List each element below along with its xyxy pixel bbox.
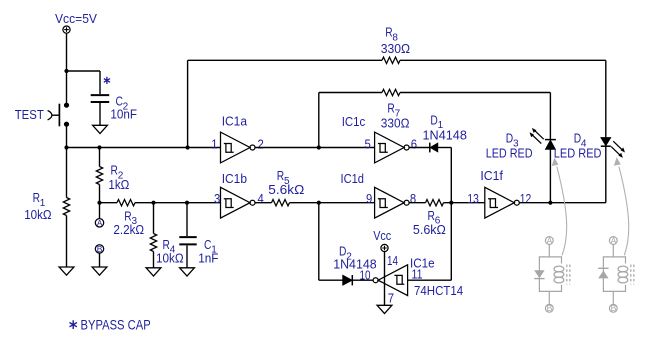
svg-text:14: 14 [387, 254, 398, 268]
wire IC1d output to R6 [409, 202, 426, 204]
power Vcc=5V symbol [63, 26, 70, 33]
diode D2 1N4148 [343, 275, 353, 285]
wire IC1f output to D4 corner [519, 202, 606, 204]
ground under B [92, 267, 107, 275]
power Vcc symbol at IC1e [381, 244, 388, 251]
svg-text:BYPASS CAP: BYPASS CAP [81, 317, 151, 332]
svg-text:5.6kΩ: 5.6kΩ [413, 222, 446, 237]
svg-text:10kΩ: 10kΩ [24, 207, 52, 222]
gray unit right: coil [618, 266, 628, 272]
svg-text:Vcc=5V: Vcc=5V [55, 11, 97, 26]
wire R8 loop right vertical to D4 [605, 60, 607, 137]
gray unit right: terminal B [609, 303, 617, 313]
svg-text:13: 13 [467, 192, 479, 206]
wire R7 loop top left [319, 92, 382, 94]
wire IC1b output to R5 [255, 202, 272, 204]
resistor R8 [382, 57, 400, 63]
capacitor C1 [186, 203, 188, 236]
schmitt inverter IC1a [221, 132, 256, 163]
node B terminal [95, 245, 103, 253]
svg-text:9: 9 [366, 192, 372, 206]
svg-text:IC1a: IC1a [222, 114, 248, 129]
wire D1 to feedback vertical [438, 147, 452, 149]
svg-text:IC1c: IC1c [342, 114, 366, 129]
svg-text:LED RED: LED RED [554, 145, 602, 160]
resistor R6 [426, 200, 444, 206]
gray unit right: box outline [603, 257, 625, 292]
gray arrow left [557, 167, 567, 256]
wire R7 loop right vertical to D3 [549, 93, 551, 140]
resistor R5 [272, 200, 290, 206]
svg-text:11: 11 [412, 267, 423, 281]
ground under R1 [59, 267, 74, 275]
svg-text:Vcc: Vcc [373, 228, 391, 243]
svg-text:A: A [547, 235, 553, 245]
junction row2 at D2 branch [317, 201, 321, 205]
ground under IC1e [377, 305, 392, 313]
pushbutton TEST: contacts [64, 103, 69, 108]
wire R3 to IC1b input [135, 202, 221, 204]
svg-text:2: 2 [258, 137, 264, 151]
wire D3 stem below [549, 149, 551, 202]
gray unit left: coil [554, 266, 564, 272]
light arrows D3 [532, 131, 543, 144]
resistor R2 [99, 148, 101, 203]
wire D2 to IC1e output bubble [352, 279, 373, 281]
capacitor C2 [91, 95, 110, 102]
gray arrow right [619, 167, 629, 256]
svg-text:B: B [547, 303, 553, 313]
svg-text:5: 5 [365, 137, 371, 151]
svg-text:5.6kΩ: 5.6kΩ [268, 182, 304, 197]
wire R7 loop top right [400, 92, 550, 94]
svg-text:10nF: 10nF [110, 107, 137, 122]
wire Vcc pin14 through IC1e to pin7 ground [384, 251, 386, 305]
wire IC1a output to IC1c input [255, 147, 375, 149]
svg-text:TEST: TEST [15, 107, 44, 122]
svg-text:IC1b: IC1b [222, 171, 247, 186]
gray unit right: wire A to box [612, 244, 614, 257]
wire D2 branch horizontal [319, 279, 343, 281]
svg-text:IC1d: IC1d [341, 171, 365, 186]
svg-text:IC1f: IC1f [480, 168, 503, 183]
svg-text:4: 4 [258, 192, 264, 206]
node A terminal [95, 219, 103, 227]
wire D2 branch vertical [318, 203, 320, 281]
svg-text:8: 8 [410, 192, 416, 206]
junction row1 at R2 [97, 145, 101, 149]
svg-text:LED RED: LED RED [486, 145, 533, 160]
label * bypass marker [104, 77, 110, 84]
svg-text:6: 6 [411, 137, 417, 151]
svg-text:A: A [611, 235, 617, 245]
junction row2 at C1 [185, 201, 189, 205]
gray unit right: flyback diode [598, 271, 608, 279]
junction row2 at D1 vertical [449, 201, 453, 205]
gray unit left: box outline [539, 257, 561, 292]
junction Vcc/C2 [64, 69, 68, 73]
schmitt inverter IC1e (mirrored) [373, 265, 408, 296]
pushbutton actuator bar [58, 104, 60, 127]
ground under C1 [180, 268, 195, 276]
wire D1 vertical down to IC1e input row [450, 148, 452, 281]
resistor R7 [382, 89, 400, 95]
wire R8 loop top left [188, 59, 382, 61]
svg-text:3: 3 [214, 192, 220, 206]
wire Vcc to switch top contact [66, 33, 68, 104]
gray unit left: flyback diode [534, 270, 544, 278]
gray unit left: terminal B [545, 303, 553, 313]
gray relay unit left: terminal A [545, 235, 553, 245]
junction row1 at R8 loop [186, 145, 190, 149]
wire to IC1e pin 11 [408, 279, 452, 281]
schmitt inverter IC1c [375, 132, 410, 163]
svg-text:B: B [97, 244, 103, 254]
wire R6 to IC1f input [444, 202, 485, 204]
ground under C2 [93, 125, 108, 133]
label * BYPASS CAP [70, 320, 77, 329]
wire node A stem [99, 203, 101, 219]
wire row2 to R3 [100, 202, 118, 204]
wire D4 stem below [605, 146, 607, 203]
wire R7 loop left vertical [318, 93, 320, 148]
resistor R1 [66, 148, 68, 268]
light arrows D4 [611, 141, 622, 155]
svg-text:10kΩ: 10kΩ [156, 250, 184, 265]
resistor R4 [153, 203, 155, 268]
junction row2 at R4 [151, 201, 155, 205]
LED D4 [601, 138, 611, 146]
diode D1 1N4148 [429, 143, 431, 153]
wire row1 main to IC1a input [67, 147, 221, 149]
pushbutton lead [52, 114, 59, 116]
junction row2 at R2/R3/A [97, 201, 101, 205]
svg-text:330Ω: 330Ω [381, 41, 411, 56]
gray unit left: core dashes [567, 265, 570, 285]
resistor R3 [117, 200, 135, 206]
svg-text:7: 7 [388, 291, 394, 305]
junction row2 at D3 [548, 201, 552, 205]
gray unit right: core dashes [631, 265, 634, 285]
wire node B to ground [99, 253, 101, 267]
gray relay unit right: terminal A [609, 235, 617, 245]
wire R5 to IC1d input [290, 202, 375, 204]
net connector bracket TEST [48, 111, 52, 120]
svg-text:10: 10 [360, 269, 371, 283]
svg-text:2.2kΩ: 2.2kΩ [113, 222, 144, 237]
wire to capacitor C2 [67, 71, 101, 94]
junction row1 at R7 loop [317, 145, 321, 149]
svg-text:1kΩ: 1kΩ [108, 177, 129, 192]
schmitt inverter IC1f [485, 187, 520, 218]
svg-text:A: A [97, 218, 103, 228]
wire R8 loop left vertical [187, 60, 189, 147]
wire R8 loop top right [400, 59, 606, 61]
junction row1 at R1 [64, 145, 68, 149]
gray unit left: wire box to B [548, 291, 550, 304]
LED D3 [545, 140, 555, 149]
gray unit left: wire A to box [548, 244, 550, 257]
svg-text:330Ω: 330Ω [381, 116, 410, 131]
schmitt inverter IC1d [375, 187, 410, 218]
svg-text:1N4148: 1N4148 [423, 128, 467, 143]
ground under R4 [146, 268, 161, 276]
gray unit right: wire box to B [612, 291, 614, 304]
svg-text:B: B [611, 303, 617, 313]
wire switch bottom to row1 [66, 124, 68, 147]
wire C2 to ground [99, 103, 101, 125]
schmitt inverter IC1b [221, 187, 256, 218]
wire IC1c output to D1 [409, 147, 430, 149]
svg-text:1nF: 1nF [198, 250, 218, 265]
svg-text:74HCT14: 74HCT14 [414, 283, 463, 298]
svg-text:1: 1 [211, 137, 217, 151]
svg-text:12: 12 [520, 192, 532, 206]
